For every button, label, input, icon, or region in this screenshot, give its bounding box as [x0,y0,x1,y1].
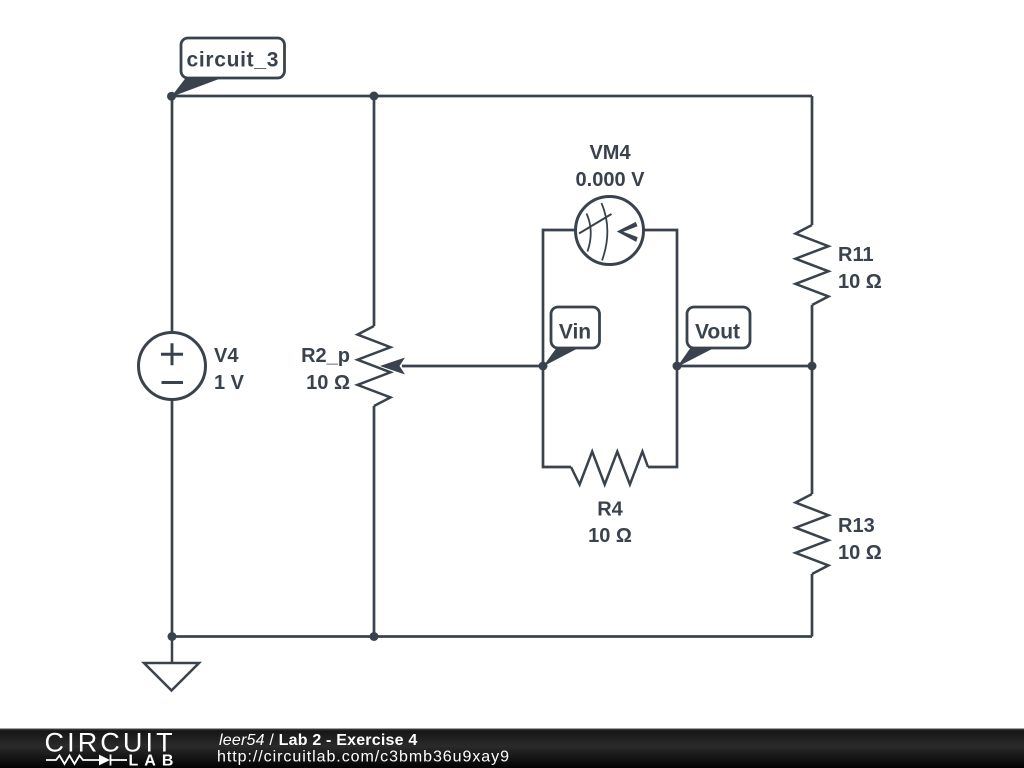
resistor R13 [796,494,829,574]
node circuit_3 label bubble [171,38,285,97]
svg-text:leer54 / Lab 2 - Exercise 4: leer54 / Lab 2 - Exercise 4 [219,732,417,749]
label R4 value [588,499,632,548]
resistor R4 [571,452,648,485]
wire right rail upper [811,96,814,225]
label V4 value [214,345,245,394]
footer logo diode triangle [99,755,110,766]
resistor R11 [796,225,829,305]
svg-text:10 Ω: 10 Ω [838,271,882,293]
junction dot node circuit_3 [167,92,176,101]
potentiometer R2_p [358,326,391,406]
wire wiper to Vin [402,365,543,368]
wire top rail [172,95,812,98]
junction dot node Vout [673,362,682,371]
svg-text:http://circuitlab.com/c3bmb36u: http://circuitlab.com/c3bmb36u9xay9 [217,749,510,766]
potentiometer R2_p wiper arrow [380,358,405,375]
voltage source V4 [139,333,206,400]
junction dot bottom rail / pot branch [370,632,379,641]
wire potentiometer branch upper [373,96,376,326]
footer bar [0,729,1024,768]
footer logo resistor-diode wire [46,755,127,766]
wire Vout to right rail [677,365,812,368]
svg-text:Vin: Vin [559,321,591,344]
svg-text:R2_p: R2_p [301,345,350,367]
wire right rail lower [811,574,814,637]
svg-text:R11: R11 [838,244,874,266]
label VM4 value [576,142,646,191]
svg-text:10 Ω: 10 Ω [838,542,882,564]
label R13 value [838,515,882,564]
node Vout label bubble [677,307,750,367]
svg-text:0.000 V: 0.000 V [576,169,646,191]
svg-text:Vout: Vout [695,321,740,344]
voltmeter VM4 [576,197,644,265]
junction dot right rail mid [808,362,817,371]
label R2_p value [301,345,350,394]
svg-text:V4: V4 [214,345,239,367]
wire right rail middle [811,305,814,494]
svg-text:10 Ω: 10 Ω [588,525,632,547]
wire left rail upper [171,96,174,333]
junction dot node Vin [539,362,548,371]
junction dot top rail / pot branch [370,92,379,101]
wire bottom rail [172,635,812,638]
svg-text:R13: R13 [838,515,875,537]
wire voltmeter loop left [543,230,576,467]
label R11 value [838,244,882,293]
junction dot bottom rail / ground [168,632,177,641]
svg-text:R4: R4 [597,499,623,521]
node Vin label bubble [543,307,600,367]
svg-text:LAB: LAB [129,753,180,768]
svg-text:circuit_3: circuit_3 [186,49,279,72]
svg-text:VM4: VM4 [589,142,631,164]
ground [144,637,199,691]
svg-text:10 Ω: 10 Ω [306,372,350,394]
wire left rail lower [171,400,174,637]
wire potentiometer branch lower [373,406,376,637]
wire voltmeter loop right [644,230,677,467]
svg-text:1 V: 1 V [214,372,245,394]
